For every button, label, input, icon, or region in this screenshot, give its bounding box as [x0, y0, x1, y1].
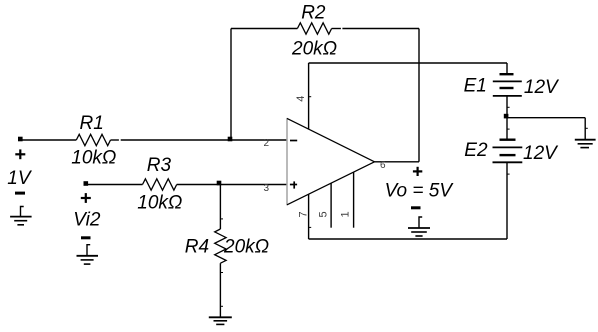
battery E1 [493, 63, 522, 140]
svg-text:Vo = 5V: Vo = 5V [385, 180, 455, 201]
pin 7 tick [309, 226, 312, 228]
wire output riser [418, 29, 420, 162]
op-amp plus input mark [290, 181, 297, 188]
ground below 1V [10, 207, 32, 225]
ground below Vo [408, 217, 430, 236]
svg-text:4: 4 [295, 96, 307, 102]
ground below Vi2 [77, 245, 99, 264]
svg-text:1: 1 [340, 211, 352, 217]
svg-text:R3: R3 [147, 155, 172, 176]
svg-text:12V: 12V [524, 77, 560, 98]
node junction R3/R4 [217, 181, 222, 186]
output plus mark [413, 167, 422, 176]
svg-text:R1: R1 [80, 113, 104, 134]
wire R2 top rail left [231, 28, 297, 30]
wire supply rail to E1 [309, 62, 507, 64]
ground right [575, 140, 596, 148]
svg-text:E1: E1 [464, 75, 487, 96]
svg-text:6: 6 [380, 160, 386, 171]
svg-text:R4: R4 [185, 237, 209, 258]
source Vi2 plus [81, 193, 91, 203]
node between E1 and E2 [504, 114, 509, 119]
pin 1 wire [353, 172, 355, 228]
pin 7 wire [308, 194, 310, 239]
wire inverting input right segment [111, 139, 119, 141]
battery E2 [493, 140, 523, 239]
resistor R2 [297, 23, 331, 34]
pin 5 wire [330, 183, 332, 228]
pin 4 tick [309, 96, 312, 98]
svg-text:20kΩ: 20kΩ [223, 237, 269, 258]
svg-text:12V: 12V [523, 143, 559, 164]
svg-text:1V: 1V [7, 168, 33, 189]
resistor R3 [143, 179, 177, 190]
wire inverting input left segment [20, 139, 76, 141]
wire to right ground [507, 117, 585, 119]
source Vi2 minus [81, 236, 91, 239]
node 1V source top [18, 137, 23, 142]
svg-text:7: 7 [298, 211, 310, 217]
svg-text:Vi2: Vi2 [73, 209, 101, 230]
resistor R1 [76, 134, 110, 145]
source 1V plus [15, 149, 25, 159]
svg-text:10kΩ: 10kΩ [71, 148, 116, 169]
svg-text:2: 2 [264, 138, 270, 149]
op-amp U1 triangle [287, 118, 375, 204]
svg-text:5: 5 [318, 211, 330, 217]
svg-text:10kΩ: 10kΩ [137, 192, 182, 213]
node Vi2 source top [84, 181, 89, 186]
source 1V minus [15, 192, 25, 195]
svg-text:20kΩ: 20kΩ [291, 38, 337, 59]
op-amp minus input mark [290, 140, 297, 142]
wire R2 branch riser left [230, 29, 232, 141]
wire R2 top rail right [332, 28, 341, 30]
svg-text:E2: E2 [464, 140, 488, 161]
bottom rail [309, 238, 507, 240]
wire pin4 riser [308, 63, 310, 129]
svg-text:3: 3 [264, 183, 270, 194]
ground below R4 [209, 317, 232, 324]
svg-text:R2: R2 [301, 3, 326, 24]
wire R4 to ground [219, 263, 221, 317]
wire noninverting input right segment [177, 184, 287, 186]
wire noninverting input left segment [86, 184, 143, 186]
wire output horizontal [375, 161, 420, 163]
output minus mark [411, 206, 421, 209]
node junction R1/R2 [228, 137, 233, 142]
resistor R4 vertical [219, 185, 221, 230]
